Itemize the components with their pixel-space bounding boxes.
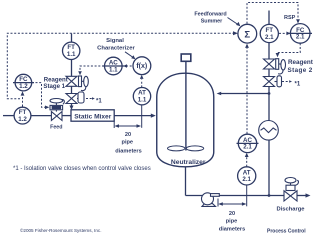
svg-text:2.1: 2.1	[242, 176, 251, 183]
svg-text:20: 20	[229, 211, 235, 217]
svg-text:20: 20	[125, 132, 131, 138]
svg-text:diameters: diameters	[219, 227, 245, 233]
svg-text:1.1: 1.1	[67, 51, 76, 58]
svg-text:1.1: 1.1	[109, 66, 118, 73]
svg-text:Stage 2: Stage 2	[288, 67, 313, 74]
svg-text:2.1: 2.1	[296, 34, 305, 41]
svg-text:RSP: RSP	[284, 15, 296, 21]
svg-text:Feed: Feed	[50, 124, 62, 130]
svg-text:pipe: pipe	[226, 219, 238, 225]
svg-text:Σ: Σ	[244, 29, 250, 40]
svg-text:2.1: 2.1	[243, 144, 252, 151]
svg-text:Static Mixer: Static Mixer	[74, 114, 111, 121]
svg-text:*1 - Isolation valve closes wh: *1 - Isolation valve closes when control…	[13, 166, 151, 172]
svg-text:f(x): f(x)	[136, 63, 147, 70]
svg-text:2.1: 2.1	[265, 34, 274, 41]
svg-text:1.2: 1.2	[19, 83, 28, 90]
svg-text:Neutralizer: Neutralizer	[171, 159, 206, 166]
svg-text:1.1: 1.1	[138, 97, 147, 104]
svg-text:Signal: Signal	[106, 38, 124, 44]
svg-text:*1: *1	[295, 81, 301, 87]
svg-text:pipe: pipe	[122, 140, 134, 146]
svg-text:diameters: diameters	[115, 148, 141, 154]
svg-text:1.2: 1.2	[18, 116, 27, 123]
svg-text:Process Control: Process Control	[267, 228, 306, 234]
svg-text:*1: *1	[96, 98, 102, 104]
svg-text:Discharge: Discharge	[276, 206, 305, 212]
svg-text:Reagent: Reagent	[288, 59, 314, 66]
svg-text:Feedforward: Feedforward	[194, 12, 226, 18]
svg-text:Characterizer: Characterizer	[97, 45, 135, 51]
svg-text:Summer: Summer	[201, 18, 223, 24]
svg-text:Stage 1: Stage 1	[43, 83, 65, 90]
svg-text:©2005 Fisher-Rosemount Systems: ©2005 Fisher-Rosemount Systems, Inc.	[20, 227, 102, 233]
